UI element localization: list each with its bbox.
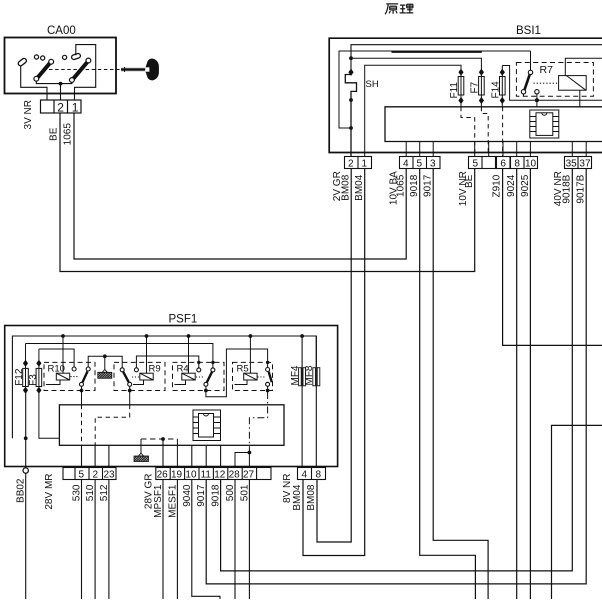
svg-text:F7: F7: [469, 81, 480, 93]
node ground bus to pin 26: [161, 437, 165, 441]
wire BE CA00 pin2 to BSI1 pin5: [60, 113, 475, 272]
connector BSI1 pins 2 1: [345, 157, 372, 169]
switch wiper contact left: [17, 58, 27, 67]
pin stub 12: [220, 445, 222, 467]
wire 9018 BSI1 down: [420, 169, 476, 600]
svg-text:9017: 9017: [423, 174, 434, 197]
wire 512: [108, 480, 110, 600]
svg-text:PSF1: PSF1: [169, 314, 198, 326]
fuse MF8: [313, 336, 320, 468]
dashed internal F7 to spare pin: [481, 107, 488, 157]
svg-text:9025: 9025: [520, 174, 531, 197]
svg-text:3V NR: 3V NR: [23, 100, 34, 129]
relay R10 coil: [46, 336, 70, 385]
svg-text:BE: BE: [464, 174, 475, 188]
ground symbol PSF1: [134, 453, 149, 461]
svg-text:Z910: Z910: [492, 174, 503, 197]
relay R7 dashed box: [516, 63, 593, 97]
wire BM08 PSF1 to BSI1: [317, 169, 351, 543]
contact circle right: [63, 55, 67, 59]
node junction SH to F7 feed: [349, 56, 353, 60]
node rail A to R10 coil: [61, 334, 65, 338]
wire 9040: [192, 480, 220, 600]
node R7 output junction: [535, 98, 539, 102]
svg-text:BM08: BM08: [306, 484, 317, 511]
wire 9025: [529, 169, 531, 600]
svg-text:9017B: 9017B: [576, 174, 587, 203]
svg-text:9018: 9018: [409, 174, 420, 197]
wire 500: [234, 480, 236, 600]
relay R5 dashed box: [233, 362, 273, 390]
relay R10 switch: [72, 367, 90, 386]
wire BM08 branch to R7 switch: [339, 51, 531, 128]
wire: left wiper to pin stub: [21, 66, 47, 100]
wire R9 contact to R4 contact: [136, 356, 198, 368]
wire F12 bottom to BB02: [25, 390, 27, 468]
svg-text:BM08: BM08: [341, 174, 352, 201]
node splice 500 501: [248, 451, 252, 455]
svg-text:8: 8: [316, 470, 322, 481]
wire R7 coil to inner box: [579, 90, 581, 107]
dotted actuation R9: [132, 376, 140, 378]
wire BSI pin1 to fuse F11: [365, 65, 461, 156]
svg-text:CA00: CA00: [47, 25, 76, 37]
wire 9018 PSF1 to BSI1 35: [221, 169, 573, 571]
relay R10 dashed box: [44, 362, 95, 390]
wire SH node to fuse F7: [351, 58, 481, 65]
wire from right edge down: [552, 425, 602, 599]
svg-text:5: 5: [417, 159, 423, 170]
dashed actuation line: [49, 69, 121, 71]
node R4 left contact feed on border: [197, 361, 200, 364]
svg-text:1: 1: [362, 159, 368, 170]
svg-text:F14: F14: [490, 81, 501, 99]
node rail A to MF4: [300, 334, 304, 338]
svg-text:BSI1: BSI1: [516, 25, 541, 37]
relay R9 dashed box: [114, 362, 165, 390]
wire top rail to right edge: [351, 45, 602, 75]
svg-text:R7: R7: [540, 64, 554, 76]
wire 9017 PSF1 to BSI1 37: [206, 169, 586, 584]
wire R7 switch output to inner box: [536, 94, 538, 107]
svg-text:BM04: BM04: [354, 174, 365, 201]
wire F14 top jog to R7 output node: [502, 66, 602, 101]
IC U1 in BSI1: [530, 110, 559, 138]
fuse F11: [458, 68, 464, 107]
inner module box PSF1: [59, 405, 284, 446]
svg-text:5: 5: [473, 159, 479, 170]
wire thick supply segment: [392, 51, 482, 53]
wire MESF1: [176, 480, 178, 600]
connector PSF1 pins 4 8: [298, 468, 326, 480]
key icon: [121, 59, 159, 81]
svg-text:1065: 1065: [62, 123, 73, 146]
switch blade right: [73, 62, 87, 79]
fuse MF4: [299, 336, 306, 468]
svg-text:F12: F12: [14, 368, 25, 386]
svg-text:9018B: 9018B: [562, 174, 573, 203]
fuse F3: [36, 349, 42, 394]
relay R4 dashed box: [173, 362, 225, 390]
wire: right loop to pin 1: [75, 45, 96, 100]
relay R4 coil: [175, 336, 196, 385]
node R9 output on border: [128, 389, 132, 393]
pin stubs BSI1: [406, 142, 586, 157]
wire 501: [248, 480, 250, 600]
wire BM04 PSF1 to BSI1: [303, 169, 365, 556]
relay R7 switch: [521, 51, 539, 96]
wire rail B F12 to R4 contact: [26, 344, 213, 368]
svg-text:11: 11: [201, 470, 212, 481]
svg-text:19: 19: [171, 470, 183, 481]
svg-text:501: 501: [239, 484, 250, 501]
connector CA00 pins: [41, 100, 82, 113]
wire R7 coil feed to right edge: [565, 58, 602, 75]
wire ground drop: [104, 356, 106, 369]
node R5 output on border: [266, 389, 270, 393]
svg-text:27: 27: [243, 470, 255, 481]
wire R9 output to pin 2: [95, 386, 130, 467]
svg-text:3: 3: [430, 159, 436, 170]
svg-text:MESF1: MESF1: [167, 484, 178, 518]
wire rail C F3 to R10 contact: [39, 349, 74, 367]
svg-text:23: 23: [104, 470, 116, 481]
relay R9 coil: [133, 336, 153, 385]
title 原理: [385, 4, 413, 14]
svg-text:BE: BE: [49, 127, 60, 141]
relay R5 switch: [266, 368, 272, 387]
node BB02 junction: [24, 436, 28, 440]
wire: junction to pin 2: [60, 84, 62, 100]
box CA00: [5, 38, 117, 94]
connector BSI1 pin 6: [497, 157, 511, 169]
shunt SH: [345, 69, 356, 157]
svg-text:2: 2: [57, 101, 64, 115]
svg-text:8: 8: [514, 159, 520, 170]
svg-text:5: 5: [79, 470, 85, 481]
connector PSF1 pins 5 2 23: [63, 468, 116, 480]
node rail A to R9 coil: [145, 334, 149, 338]
connector BSI1 pins 8 10: [511, 157, 538, 169]
wire 510: [94, 480, 96, 600]
svg-text:4: 4: [403, 159, 409, 170]
wire Z910 to right edge: [503, 169, 602, 346]
svg-text:1: 1: [72, 101, 79, 115]
svg-text:BB02: BB02: [16, 478, 27, 503]
svg-text:SH: SH: [366, 79, 379, 90]
pin stub 23: [108, 445, 110, 467]
svg-text:28: 28: [229, 470, 241, 481]
wire F3 bottom to inner box: [39, 390, 60, 438]
svg-text:500: 500: [225, 484, 236, 501]
wire R5 output dash-dot to pins 28 27: [235, 386, 268, 467]
svg-text:26: 26: [157, 470, 169, 481]
IC U2 in PSF1: [193, 410, 221, 441]
svg-text:12: 12: [214, 470, 226, 481]
connector BSI1 pin 5 and spare: [469, 157, 496, 169]
box PSF1: [5, 326, 338, 467]
wire 9024: [516, 169, 518, 600]
dotted actuation R10: [71, 376, 79, 378]
box BSI1: [329, 38, 602, 152]
dotted actuation R5: [258, 376, 265, 378]
inner module box BSI1: [385, 107, 602, 142]
dashed internal F11 to pin 5: [461, 107, 475, 157]
dotted actuation R7: [534, 82, 559, 84]
svg-text:35: 35: [566, 159, 578, 170]
svg-text:37: 37: [579, 159, 591, 170]
switch blade left: [38, 63, 51, 78]
ground symbol relay row: [98, 370, 112, 379]
pin stub 11: [205, 445, 207, 467]
fuse F14: [500, 66, 506, 107]
switch wiper contact right: [71, 53, 81, 60]
svg-text:MPSF1: MPSF1: [153, 484, 164, 518]
relay R4 switch: [197, 368, 215, 386]
wire 1065 CA00 pin1 to BSI1 pin4: [74, 113, 406, 259]
node: common junction: [59, 82, 63, 86]
connector PSF1 pins 26 19 10 11 12 28 27: [156, 468, 271, 480]
svg-text:MF8: MF8: [304, 365, 315, 385]
relay R7 coil: [559, 76, 587, 91]
svg-text:4: 4: [302, 470, 308, 481]
node ground tap: [103, 354, 107, 358]
wire internal ground bus: [141, 439, 177, 468]
svg-text:2: 2: [348, 159, 354, 170]
connector BSI1 pins 4 5 3: [400, 157, 441, 169]
wire R4 output to R5 contact: [206, 349, 268, 397]
fuse F12: [23, 344, 29, 394]
node rail A to R4 coil: [187, 334, 191, 338]
node R5 contact feed on border: [266, 361, 269, 364]
svg-text:9040: 9040: [182, 484, 193, 507]
wire BB02 down: [25, 473, 27, 599]
svg-text:F11: F11: [449, 82, 460, 99]
svg-text:9017: 9017: [196, 484, 207, 507]
wire: common bus of blades: [36, 81, 72, 84]
pin stub 10: [191, 445, 193, 467]
dotted actuation R4: [196, 376, 204, 378]
wire R10 output to pin 5: [81, 386, 83, 467]
node junction on SH line (lower): [349, 126, 353, 130]
svg-text:9024: 9024: [506, 174, 517, 197]
node rail A to R5 coil: [249, 334, 253, 338]
wire rail A battery feed: [12, 336, 316, 438]
svg-text:9018: 9018: [211, 484, 222, 507]
relay R5 coil: [235, 336, 258, 385]
fuse F7: [479, 65, 485, 107]
svg-text:F3: F3: [28, 374, 39, 386]
svg-text:MF4: MF4: [290, 365, 301, 385]
svg-text:1065: 1065: [396, 174, 407, 197]
wire R10 output chain to R9 contact: [88, 356, 122, 367]
wire 530: [81, 480, 83, 600]
svg-text:510: 510: [85, 484, 96, 501]
svg-text:2: 2: [93, 470, 99, 481]
svg-text:28V MR: 28V MR: [44, 474, 55, 510]
svg-text:10: 10: [185, 470, 197, 481]
wire 9017 BSI1 down: [433, 169, 488, 600]
svg-text:530: 530: [72, 484, 83, 501]
svg-text:BM04: BM04: [292, 484, 303, 511]
node R4 contact feed on border: [211, 361, 214, 364]
dashed internal F14 to pin 6: [502, 107, 504, 157]
svg-text:10: 10: [525, 159, 537, 170]
node R4 output on border: [204, 389, 208, 393]
wire MPSF1: [162, 480, 164, 600]
node BB02: [23, 468, 28, 473]
contact circles left: [34, 55, 38, 59]
node R10 output on border: [80, 389, 84, 393]
connector BSI1 pins 35 37: [565, 157, 592, 169]
relay R9 switch: [120, 368, 138, 387]
svg-text:6: 6: [500, 159, 506, 170]
